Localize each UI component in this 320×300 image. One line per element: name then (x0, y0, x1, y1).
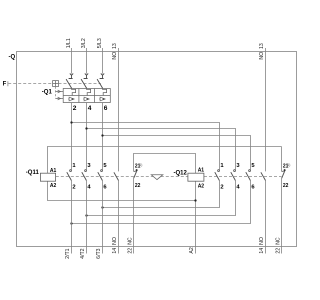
breaker Q1 blade pole 3 (97, 79, 103, 88)
svg-text:14: 14 (259, 248, 265, 254)
dashed trip line latch to pole blades (59, 83, 101, 85)
svg-text:NO: NO (259, 237, 265, 245)
Q12 aux NC contact node (136, 169, 138, 171)
dashed link latch to releases (55, 87, 57, 99)
Q12 main contact pole 2 (231, 170, 236, 181)
magnetic release element pole 1 (68, 97, 74, 101)
Q12 aux NO contact line bottom (265, 181, 267, 254)
junction node pole 2 / crossover (85, 127, 87, 129)
svg-text:A1: A1 (50, 168, 57, 174)
svg-text:1): 1) (139, 163, 142, 167)
svg-text:22: 22 (135, 183, 141, 189)
Q11 main contact pole 3 (98, 170, 103, 181)
Q11 aux NO contact line bottom (118, 181, 120, 254)
svg-text:NO: NO (112, 237, 118, 245)
dashed actuator line Q11 (56, 176, 188, 178)
svg-text:2: 2 (220, 184, 223, 190)
svg-text:14: 14 (112, 248, 118, 254)
svg-text:3/L2: 3/L2 (81, 38, 87, 48)
thermal overload element pole 3 (103, 89, 107, 96)
junction node A2 (194, 199, 196, 201)
Q12 coil A1 wire to Q11 interlock NC contact (134, 154, 196, 174)
Q12 main contact pole 3 (246, 170, 251, 181)
dashed actuator line Q12 (204, 176, 282, 178)
wire pole 3 Q1 to Q11 contact (102, 103, 104, 170)
svg-text:13: 13 (259, 43, 265, 49)
svg-text:22: 22 (275, 248, 281, 254)
svg-text:6: 6 (104, 105, 108, 112)
crossover wire pole 3 to Q12 contact 5 (103, 136, 251, 170)
dashed trip line F to latch (8, 83, 52, 85)
svg-text:A2: A2 (50, 183, 57, 189)
wire to terminal 6/T3 (102, 181, 104, 254)
supply line L3 (102, 48, 104, 74)
svg-text:4/T2: 4/T2 (80, 248, 86, 258)
svg-text:1/L1: 1/L1 (66, 38, 72, 48)
Q11 aux NC contact bar (282, 170, 284, 172)
crossover wire pole 2 to Q12 contact 3 (87, 129, 236, 170)
svg-text:NO: NO (112, 52, 118, 60)
svg-text:-Q12: -Q12 (173, 170, 187, 176)
svg-text:NC: NC (127, 237, 133, 245)
svg-text:A1: A1 (198, 167, 205, 173)
Q11 aux NC contact blade (282, 171, 285, 179)
breaker Q1 blade pole 1 (66, 79, 72, 88)
Q12 aux NO contact blade (261, 172, 266, 180)
return wire Q12 contact 2 to pole line (103, 181, 220, 208)
svg-text:6/T3: 6/T3 (96, 248, 102, 258)
svg-text:A2: A2 (189, 247, 195, 253)
thermal overload element pole 2 (87, 89, 91, 96)
magnetic release element pole 2 (83, 97, 89, 101)
svg-text:-Q: -Q (9, 54, 16, 60)
Q11 coil A2 wire (48, 181, 196, 200)
supply line L1 (71, 48, 73, 74)
Q12 aux NC contact line bottom (133, 178, 135, 254)
svg-text:2/T1: 2/T1 (65, 248, 71, 258)
junction node return (70, 222, 72, 224)
Q12 aux NC contact blade (134, 171, 137, 179)
Q11 aux NC contact node (284, 169, 286, 171)
return wire Q12 contact 6 to pole line (72, 181, 251, 224)
Q12 aux NC contact bar (134, 170, 136, 172)
junction node pole 3 / crossover (101, 134, 103, 136)
return wire Q12 contact 4 to pole line (87, 181, 236, 216)
Q11 aux NO contact blade (114, 172, 119, 180)
Q12 aux NO contact line top (265, 48, 267, 171)
svg-text:22: 22 (127, 248, 133, 254)
contactor Q12 coil (188, 173, 204, 181)
magnetic release element pole 3 (99, 97, 105, 101)
svg-text:22: 22 (283, 183, 289, 189)
Q11 aux NO contact line top (118, 48, 120, 171)
svg-text:NC: NC (275, 237, 281, 245)
thermal overload element pole 1 (72, 89, 76, 96)
wire pole 2 Q1 to Q11 contact (86, 103, 88, 170)
terminal tick at F (7, 81, 9, 86)
plug-in terminal pole 1 (69, 74, 74, 79)
junction node pole 1 / crossover (70, 121, 72, 123)
Q11 aux NC contact line bottom (281, 178, 283, 254)
wire to terminal 4/T2 (86, 181, 88, 254)
svg-text:F: F (3, 82, 7, 88)
wire to terminal 2/T1 (71, 181, 73, 254)
svg-text:2: 2 (72, 184, 75, 190)
Q11 aux NC contact stub (281, 147, 283, 172)
svg-text:-Q11: -Q11 (26, 170, 40, 176)
mechanical interlock symbol (151, 175, 163, 180)
svg-text:NO: NO (259, 52, 265, 60)
breaker Q1 housing (63, 89, 110, 103)
mechanical latch symbol (53, 81, 59, 87)
thermal release trip arrow (56, 90, 64, 93)
Q12 coil A2 wire to terminal A2 (195, 181, 197, 253)
enclosure frame -Q (17, 52, 297, 247)
Q12 main contact pole 1 (215, 170, 220, 181)
svg-text:5/L3: 5/L3 (97, 38, 103, 48)
Q11 main contact pole 1 (67, 170, 72, 181)
junction node return (85, 214, 87, 216)
svg-text:1): 1) (287, 163, 290, 167)
svg-text:2: 2 (73, 105, 77, 112)
breaker Q1 blade pole 2 (81, 79, 87, 88)
junction node return (101, 206, 103, 208)
contactor Q11 coil (40, 173, 55, 181)
plug-in terminal pole 2 (84, 74, 89, 79)
plug-in terminal pole 3 (100, 74, 105, 79)
Q11 coil A1 wire to Q12 interlock NC contact (48, 147, 282, 174)
supply line L2 (86, 48, 88, 74)
Q11 main contact pole 2 (82, 170, 87, 181)
svg-text:13: 13 (112, 43, 118, 49)
magnetic release trip arrow (56, 97, 64, 100)
svg-text:-Q1: -Q1 (42, 89, 53, 95)
svg-text:4: 4 (88, 105, 92, 112)
svg-text:A2: A2 (198, 183, 205, 189)
crossover wire pole 1 to Q12 contact 1 (72, 123, 220, 170)
wire pole 1 Q1 to Q11 contact (71, 103, 73, 170)
